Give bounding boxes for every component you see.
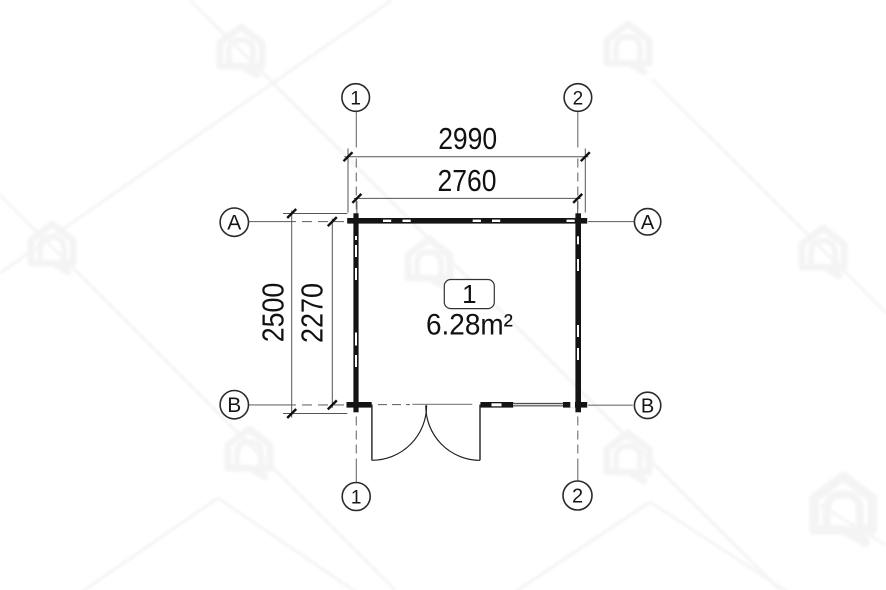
svg-text:2990: 2990 — [438, 122, 497, 156]
svg-text:B: B — [641, 396, 654, 418]
svg-text:6.28m²: 6.28m² — [426, 308, 513, 341]
svg-text:B: B — [227, 394, 241, 417]
svg-text:1: 1 — [351, 487, 362, 508]
svg-text:A: A — [641, 212, 655, 234]
svg-text:1: 1 — [462, 279, 476, 309]
svg-text:2: 2 — [572, 486, 583, 508]
svg-text:A: A — [227, 211, 241, 234]
svg-text:2270: 2270 — [296, 283, 330, 343]
svg-text:2500: 2500 — [256, 283, 290, 343]
svg-text:1: 1 — [350, 88, 361, 109]
svg-text:2: 2 — [573, 88, 584, 109]
svg-text:2760: 2760 — [438, 164, 497, 198]
